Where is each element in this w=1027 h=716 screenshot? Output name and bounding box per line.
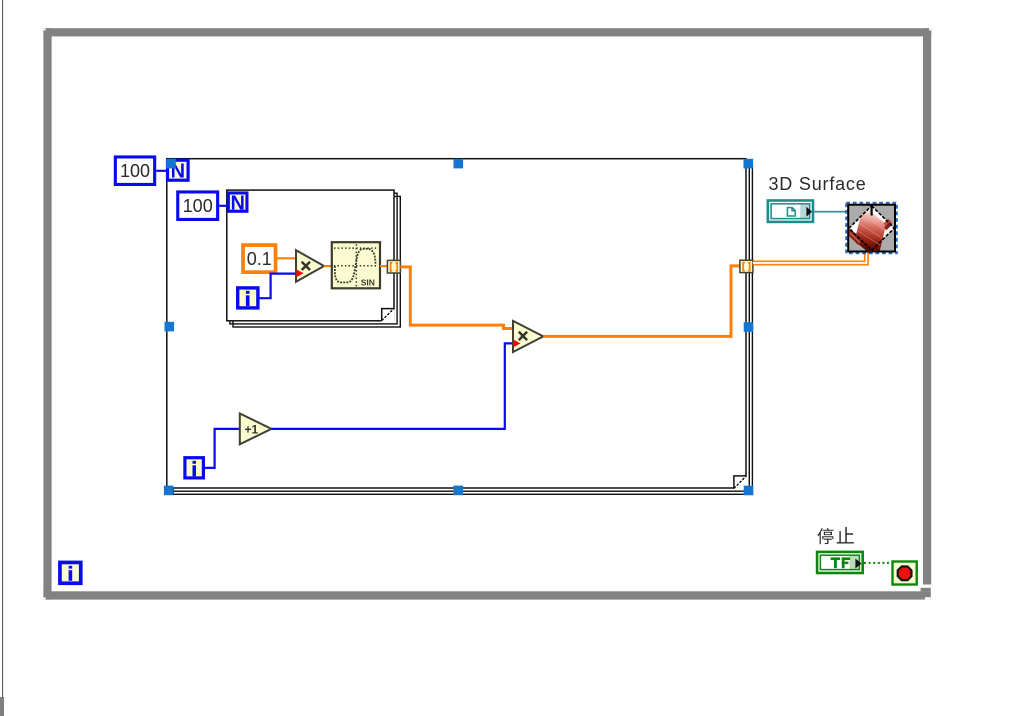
- for loop F1 page curl: [734, 476, 748, 490]
- wire increment to multiply (outer): [271, 343, 513, 429]
- wire i to increment: [205, 429, 240, 468]
- window left edge line: [2, 0, 3, 716]
- for loop F2 front frame: [227, 190, 394, 321]
- for loop F1 front frame: [167, 159, 746, 488]
- for loop F2 (inner) back frames: [230, 193, 400, 327]
- wire multiply to tunnel T2 (thick orange): [543, 266, 740, 337]
- sine function icon: [332, 242, 380, 288]
- numeric constant 100 (outer): [114, 155, 156, 186]
- wire sine to tunnel: [380, 265, 387, 267]
- multiply node (inner): [296, 250, 324, 282]
- svg-text:100: 100: [183, 196, 213, 216]
- svg-text:+1: +1: [245, 423, 259, 437]
- svg-text:SIN: SIN: [361, 277, 375, 287]
- tunnel T2 on F1 right edge: [740, 260, 753, 272]
- for loop F2 page curl: [381, 308, 394, 321]
- boolean terminal TF (stop): [816, 551, 864, 575]
- svg-text:100: 100: [120, 161, 150, 181]
- loop condition terminal (stop sign): [893, 562, 917, 585]
- svg-text:0.1: 0.1: [247, 249, 272, 269]
- wire 2D array tunnel to 3D icon (double orange): [753, 252, 867, 263]
- wire 1D array tunnel to multiply (thick orange): [400, 267, 513, 329]
- wire 0.1 to multiply: [277, 257, 296, 259]
- wire i to multiply (inner, drawn over 0.1 corner): [260, 274, 296, 299]
- label 停止: [817, 527, 853, 544]
- while loop corner chamfers: [43, 28, 931, 600]
- wire multiply to sine: [324, 265, 332, 267]
- 3D picture control refnum terminal: [767, 199, 815, 223]
- wire 100 to N (outer): [156, 170, 166, 172]
- selection handles on F1: [164, 159, 753, 496]
- iteration terminal i (while loop): [58, 561, 83, 586]
- wire refnum to 3D icon (teal): [814, 211, 848, 213]
- while loop W1 border: [43, 28, 931, 599]
- for loop F1 (outer) back frames: [170, 162, 752, 494]
- numeric constant 0.1: [241, 243, 277, 274]
- svg-text:N: N: [230, 192, 244, 214]
- 3D surface VI icon: [846, 203, 897, 254]
- wire TF to loop condition (dotted green): [864, 562, 893, 564]
- iteration terminal i (outer): [183, 456, 205, 479]
- wire 100 to N (inner): [219, 205, 227, 207]
- increment node +1: [240, 414, 272, 445]
- svg-text:3D Surface: 3D Surface: [769, 174, 867, 194]
- iteration terminal i (inner): [236, 286, 260, 309]
- numeric constant 100 (inner): [176, 190, 219, 221]
- loop count terminal N (inner): [227, 191, 249, 214]
- tunnel T1 on F2 right edge: [387, 260, 400, 273]
- loop count terminal N (outer): [166, 159, 190, 183]
- multiply node (outer): [513, 321, 543, 352]
